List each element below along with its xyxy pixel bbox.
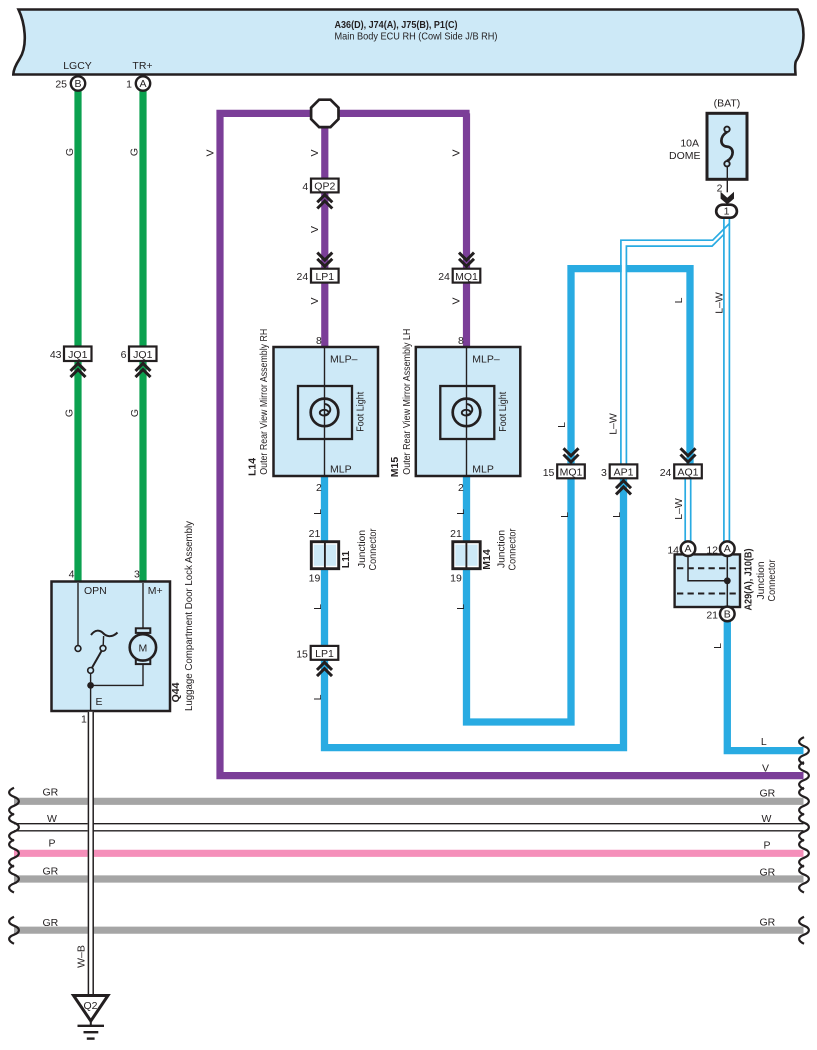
svg-text:MQ1: MQ1 — [455, 271, 478, 283]
wire L-W main double line — [723, 218, 725, 542]
svg-text:1: 1 — [126, 79, 132, 91]
bus wire P — [14, 850, 804, 857]
bus break symbols left — [9, 788, 19, 944]
svg-text:V: V — [309, 226, 321, 233]
bulb L14 foot light — [311, 399, 339, 427]
svg-text:L: L — [611, 512, 623, 518]
svg-text:MLP–: MLP– — [330, 354, 358, 366]
svg-text:15: 15 — [543, 467, 555, 479]
svg-text:(BAT): (BAT) — [714, 98, 741, 110]
svg-text:M+: M+ — [148, 585, 163, 597]
svg-text:M15: M15 — [389, 457, 401, 478]
svg-text:A29(A), J10(B): A29(A), J10(B) — [742, 549, 754, 611]
svg-text:1: 1 — [81, 714, 87, 726]
svg-text:GR: GR — [760, 867, 776, 879]
motor M Q44 — [142, 583, 144, 628]
arrow to node 1 — [721, 192, 734, 205]
svg-text:19: 19 — [450, 573, 462, 585]
svg-text:8: 8 — [316, 335, 322, 347]
wire L from junction B to right edge — [727, 614, 803, 751]
svg-text:4: 4 — [302, 181, 308, 193]
svg-text:2: 2 — [717, 183, 723, 195]
rotated wire color labels G — [63, 148, 141, 417]
svg-text:21: 21 — [450, 528, 462, 540]
svg-text:GR: GR — [43, 917, 59, 929]
svg-text:LP1: LP1 — [315, 271, 334, 283]
bus wire GR 2 — [14, 875, 804, 882]
svg-text:M: M — [139, 642, 148, 654]
svg-text:L: L — [556, 422, 568, 428]
svg-text:43: 43 — [50, 349, 62, 361]
svg-text:MQ1: MQ1 — [560, 467, 583, 479]
wire V purple loop — [220, 113, 804, 775]
svg-text:MLP: MLP — [472, 464, 494, 476]
wire G left — [74, 91, 81, 582]
svg-text:Connector: Connector — [766, 559, 778, 601]
svg-text:QP2: QP2 — [314, 181, 335, 193]
wire V middle vertical — [321, 113, 328, 347]
svg-text:Luggage Compartment Door Lock: Luggage Compartment Door Lock Assembly — [183, 520, 195, 711]
connector MQ1 15 — [564, 448, 579, 462]
svg-text:P: P — [764, 840, 771, 852]
svg-text:Connector: Connector — [506, 528, 518, 570]
wire L-W branch white core — [622, 246, 626, 464]
connector JQ1 6 — [129, 347, 157, 362]
svg-text:GR: GR — [760, 917, 776, 929]
connector AP1 3 — [610, 464, 638, 478]
svg-text:Outer Rear View Mirror Assembl: Outer Rear View Mirror Assembly LH — [401, 329, 413, 475]
svg-text:MLP–: MLP– — [472, 354, 500, 366]
svg-text:3: 3 — [601, 467, 607, 479]
node octagon junction — [311, 100, 338, 127]
svg-text:L: L — [312, 509, 324, 515]
svg-text:OPN: OPN — [84, 585, 107, 597]
svg-text:V: V — [204, 149, 216, 156]
wire L-W branch to AP1 — [621, 224, 730, 465]
svg-text:L–W: L–W — [673, 498, 685, 520]
bus wire W — [14, 823, 804, 825]
svg-text:GR: GR — [43, 787, 59, 799]
svg-text:G: G — [64, 148, 76, 156]
svg-text:GR: GR — [43, 866, 59, 878]
svg-text:LP1: LP1 — [315, 648, 334, 660]
svg-text:G: G — [128, 148, 140, 156]
svg-text:Foot Light: Foot Light — [355, 392, 367, 432]
svg-text:Connector: Connector — [367, 528, 379, 570]
svg-text:TR+: TR+ — [132, 60, 152, 72]
svg-text:L–W: L–W — [607, 413, 619, 435]
svg-text:3: 3 — [134, 569, 140, 581]
wire L from L14 to AP1 — [325, 476, 624, 748]
svg-text:Q44: Q44 — [170, 682, 182, 702]
svg-text:Main Body ECU RH (Cowl Side J/: Main Body ECU RH (Cowl Side J/B RH) — [335, 31, 498, 43]
junction connector L11 — [311, 542, 338, 569]
svg-text:AP1: AP1 — [614, 467, 634, 479]
svg-text:M14: M14 — [481, 549, 493, 570]
wire V right vertical — [463, 113, 470, 347]
bus wire GR 1 — [14, 798, 804, 805]
wire L from M15 to MQ1 — [467, 476, 572, 722]
svg-text:14: 14 — [667, 545, 679, 557]
connector QP2 4 — [311, 179, 339, 193]
svg-text:L: L — [455, 604, 467, 610]
svg-text:A36(D), J74(A), J75(B), P1(C): A36(D), J74(A), J75(B), P1(C) — [335, 19, 458, 31]
bulb M15 foot light — [453, 399, 481, 427]
svg-text:W–B: W–B — [75, 945, 87, 968]
junction pin B 21 — [720, 607, 735, 622]
svg-text:19: 19 — [309, 573, 321, 585]
mirror assembly M15 box — [416, 347, 521, 476]
svg-text:V: V — [309, 297, 321, 304]
rotated wire color labels V — [204, 149, 462, 304]
svg-text:Outer Rear View Mirror Assembl: Outer Rear View Mirror Assembly RH — [258, 329, 270, 475]
svg-text:V: V — [450, 149, 462, 156]
pin circle B 25 — [71, 76, 85, 90]
svg-text:A: A — [139, 78, 146, 90]
svg-text:1: 1 — [724, 206, 730, 218]
svg-text:AQ1: AQ1 — [677, 467, 698, 479]
fuse output lead 2 — [726, 167, 728, 193]
svg-text:L: L — [761, 736, 767, 748]
bus break symbols right — [799, 737, 809, 944]
svg-text:DOME: DOME — [669, 150, 701, 162]
svg-text:Q2: Q2 — [83, 1000, 97, 1012]
svg-text:2: 2 — [458, 482, 464, 494]
connector LP1 15 — [311, 646, 339, 660]
svg-text:L–W: L–W — [713, 292, 725, 314]
svg-text:21: 21 — [309, 528, 321, 540]
svg-text:G: G — [63, 409, 75, 417]
svg-text:V: V — [309, 149, 321, 156]
svg-text:A: A — [684, 543, 691, 555]
wire L from MQ1 to AQ1 — [571, 269, 690, 465]
svg-text:MLP: MLP — [330, 464, 352, 476]
svg-text:4: 4 — [69, 569, 75, 581]
svg-text:E: E — [96, 696, 103, 708]
svg-text:24: 24 — [297, 271, 309, 283]
svg-text:15: 15 — [296, 648, 308, 660]
junction connector M14 — [453, 542, 480, 569]
svg-text:P: P — [49, 838, 56, 850]
wire L-W from AQ1 to junction pin 14 — [684, 478, 686, 542]
junction pin A 12 — [720, 541, 735, 556]
junction connector A29(A), J10(B) — [675, 554, 740, 607]
connector MQ1 24 — [459, 253, 474, 267]
svg-text:12: 12 — [706, 545, 718, 557]
connector LP1 24 — [317, 253, 332, 267]
switch Q44 — [78, 583, 91, 711]
rotated wire color labels L-W — [607, 292, 725, 520]
junction pin A 14 — [681, 541, 696, 556]
svg-text:10A: 10A — [680, 138, 699, 150]
luggage door lock Q44 box — [52, 582, 171, 712]
rotated wire color labels L — [312, 297, 724, 700]
Main Body ECU banner — [13, 10, 803, 75]
bus wire GR 3 — [14, 927, 804, 934]
svg-text:2: 2 — [316, 482, 322, 494]
svg-text:L: L — [559, 512, 571, 518]
svg-text:V: V — [450, 297, 462, 304]
svg-text:W: W — [47, 813, 57, 825]
svg-text:A: A — [724, 543, 731, 555]
svg-text:L11: L11 — [340, 551, 352, 569]
svg-text:GR: GR — [760, 788, 776, 800]
svg-text:L: L — [712, 643, 724, 649]
svg-text:L: L — [455, 509, 467, 515]
svg-text:6: 6 — [121, 349, 127, 361]
pin circle A 1 — [136, 76, 150, 90]
svg-text:G: G — [129, 409, 141, 417]
svg-text:L: L — [312, 604, 324, 610]
connector AQ1 24 — [681, 448, 696, 462]
svg-text:24: 24 — [438, 271, 450, 283]
connector JQ1 43 — [64, 347, 92, 362]
svg-text:21: 21 — [706, 610, 718, 622]
node 1 oval — [716, 205, 737, 218]
svg-text:L: L — [312, 694, 324, 700]
mirror assembly L14 box — [274, 347, 379, 476]
svg-text:V: V — [762, 762, 769, 774]
svg-text:L14: L14 — [247, 458, 259, 476]
svg-text:8: 8 — [458, 335, 464, 347]
wire W-B — [88, 712, 94, 996]
svg-text:B: B — [724, 608, 731, 620]
ground Q2 — [74, 996, 109, 1022]
wire G right — [139, 91, 146, 582]
svg-text:LGCY: LGCY — [63, 60, 92, 72]
svg-text:B: B — [74, 78, 81, 90]
svg-text:Foot Light: Foot Light — [497, 392, 509, 432]
svg-text:24: 24 — [660, 467, 672, 479]
svg-text:25: 25 — [55, 79, 67, 91]
svg-text:W: W — [762, 813, 772, 825]
svg-text:JQ1: JQ1 — [68, 349, 87, 361]
svg-text:L: L — [673, 297, 685, 303]
svg-text:JQ1: JQ1 — [133, 349, 152, 361]
